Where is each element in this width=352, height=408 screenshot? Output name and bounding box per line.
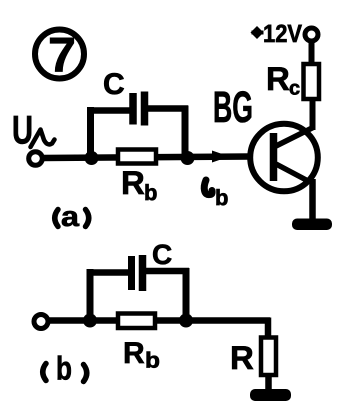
svg-text:C: C	[103, 68, 125, 101]
node junction left (b)	[83, 314, 97, 328]
svg-text:b: b	[215, 185, 228, 210]
transistor BG (NPN)	[250, 124, 318, 192]
resistor R	[261, 338, 276, 376]
wire: terminal to Rc	[309, 41, 315, 66]
svg-text:C: C	[152, 239, 172, 270]
svg-text:R: R	[230, 339, 254, 376]
label (b)	[43, 350, 87, 387]
label (a)	[55, 201, 89, 232]
wire: capacitor to top right (b)	[146, 268, 189, 275]
svg-text:R: R	[266, 60, 290, 97]
svg-text:7: 7	[48, 29, 76, 83]
wire: right vertical of RC loop (a)	[182, 106, 189, 159]
pulse symbol (input waveform)	[31, 130, 55, 148]
svg-text:b: b	[144, 180, 157, 205]
label ib	[204, 180, 228, 210]
input terminal (a)	[29, 152, 43, 166]
ground (b)	[250, 389, 291, 401]
wire: Rc to collector	[310, 98, 316, 130]
wire: left vertical of RC loop (a)	[87, 107, 94, 158]
wire: input to corner (b)	[48, 317, 270, 324]
svg-text:BG: BG	[213, 83, 253, 132]
wire: capacitor to top right (a)	[148, 105, 188, 112]
wire: input to transistor base	[42, 157, 250, 159]
supply terminal	[305, 28, 318, 41]
input terminal (b)	[34, 315, 48, 329]
resistor Rb (b)	[118, 314, 155, 329]
wire: R to ground (b)	[265, 374, 272, 393]
wire: emitter down	[309, 179, 316, 222]
svg-text:b: b	[56, 350, 72, 387]
wire: top left to capacitor (a)	[87, 107, 131, 114]
node junction right (a)	[181, 151, 195, 165]
wire: right vertical of loop (b)	[183, 268, 190, 321]
svg-text:R: R	[121, 164, 145, 201]
capacitor C1 (a)	[133, 92, 145, 126]
ground (a)	[292, 219, 332, 231]
arrow ib on base wire	[212, 151, 230, 163]
capacitor C2 (b)	[132, 255, 143, 291]
wire: top left to capacitor (b)	[87, 269, 130, 276]
svg-text:c: c	[289, 78, 300, 100]
svg-text:a: a	[61, 201, 79, 232]
svg-text:12V: 12V	[263, 20, 302, 48]
resistor Rb (a)	[118, 150, 156, 164]
svg-text:R: R	[123, 337, 145, 370]
figure number 7 (circled)	[35, 29, 84, 83]
resistor Rc	[304, 64, 320, 99]
wire: left vertical of loop (b)	[87, 269, 94, 321]
node junction right (b)	[179, 314, 193, 328]
+12V supply label	[251, 20, 303, 48]
wire: corner down to R	[265, 318, 272, 340]
svg-text:b: b	[145, 348, 160, 373]
node junction left (a)	[85, 151, 99, 165]
